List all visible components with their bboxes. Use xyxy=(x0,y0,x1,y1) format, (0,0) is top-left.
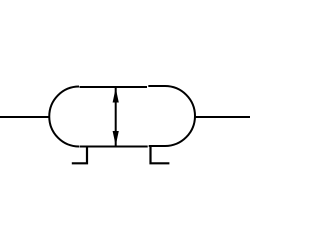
resonator body left top edge xyxy=(80,86,148,88)
left mounting leg xyxy=(72,147,87,164)
right lead wire xyxy=(195,116,251,118)
arrowhead bottom xyxy=(113,131,119,146)
arrowhead top xyxy=(113,88,119,103)
resonator body left cap xyxy=(49,87,79,147)
resonator body right half xyxy=(148,86,195,146)
right mounting leg xyxy=(151,146,170,163)
dimension arrow shaft xyxy=(115,88,117,146)
left lead wire xyxy=(0,116,49,118)
resonator body left bottom edge xyxy=(80,146,148,148)
